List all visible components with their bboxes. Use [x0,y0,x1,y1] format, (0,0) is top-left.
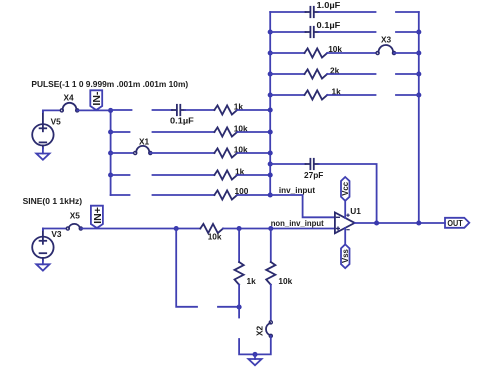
wire non_inv_input row [176,228,200,230]
wire to opamp plus [223,228,335,230]
row f3 wire after X3 [394,52,419,54]
svg-text:IN-: IN- [91,91,103,106]
svg-text:10k: 10k [208,231,222,241]
node dot [237,226,242,231]
row f2 wire left [270,31,305,33]
node dot [108,129,113,134]
row f4 wire after gap [396,73,419,75]
wire X2 to ground row [255,336,271,355]
feedback right bus [418,12,420,223]
voltage source V5 [32,110,53,148]
wire X4 to IN- node [77,109,110,111]
row m2 wire stub [111,131,130,133]
resistor 2k [305,69,328,78]
svg-text:V5: V5 [51,117,62,127]
node dot [268,29,273,34]
wire V3 to X5 [43,229,68,231]
svg-text:1k: 1k [247,276,257,286]
svg-text:U1: U1 [350,206,361,216]
row f2 wire right [319,31,376,33]
resistor 10k (row m2) [214,127,237,136]
wire X5 to junction [81,228,176,230]
wire m1 to bus [237,109,270,111]
row m2 wire [153,131,215,133]
row m4 wire [153,174,215,176]
flag OUT [445,218,469,228]
node dot [268,172,273,177]
row m3 wire [150,152,214,154]
node dot [416,220,421,225]
node dot [174,226,179,231]
wire cap to resistor m1 [185,109,214,111]
node dot [268,150,273,155]
node dot [108,150,113,155]
row f1 wire right [319,11,376,13]
row f5 wire after gap [396,94,419,96]
wire bus to 27pF [270,163,305,165]
node dot [268,71,273,76]
svg-text:0.1µF: 0.1µF [170,116,194,126]
wire inv_input [270,195,335,217]
row f1 wire after gap [396,11,419,13]
resistor 100 (row m5) [214,190,237,199]
node dot ground [252,352,257,357]
svg-text:1.0µF: 1.0µF [317,0,341,10]
voltage source V3 [32,229,53,261]
svg-text:10k: 10k [278,276,292,286]
row f4 wire right [327,73,375,75]
row m3 wire stub [111,152,136,154]
svg-text:OUT: OUT [447,218,462,228]
flag IN- [90,90,103,110]
capacitor 1.0uF [306,7,319,17]
resistor 10k (vertical) with leads [266,229,275,323]
flag Vcc [341,177,350,201]
resistor 1k (row m1) [214,105,237,114]
svg-text:X2: X2 [254,325,264,336]
wire 1k leg after gap [239,339,255,354]
resistor 10k (feedback) [305,48,328,57]
wire m4 to bus [237,174,270,176]
flag Vss [341,244,350,268]
row f5 wire left [270,94,304,96]
svg-text:inv_input: inv_input [279,185,315,195]
feedback left bus [269,12,271,195]
wire gap segment [218,306,239,308]
row f4 wire left [270,73,304,75]
jumper X5 [66,224,82,230]
capacitor 0.1uF (input) [172,105,185,115]
resistor 10k (row m3) [214,148,237,157]
node dot [268,107,273,112]
wire left branch down [176,229,197,307]
node dot [268,226,273,231]
svg-text:0.1µF: 0.1µF [317,20,341,30]
row m5 wire stub [111,194,130,196]
node dot [268,92,273,97]
wire m2 to bus [237,131,270,133]
svg-text:Vcc: Vcc [341,181,350,196]
svg-text:V3: V3 [51,229,62,239]
wire m5 to bus [237,194,270,196]
svg-text:X4: X4 [64,93,75,103]
node dot [268,161,273,166]
wire Vss stem [344,228,346,245]
node dot [268,50,273,55]
row m4 wire stub [111,174,130,176]
wire 1k leg lower [238,307,240,318]
row f3 wire to X3 [327,52,377,54]
node dot [108,172,113,177]
svg-text:SINE(0 1 1kHz): SINE(0 1 1kHz) [23,196,83,206]
svg-text:X3: X3 [381,35,392,45]
node dot [416,71,421,76]
resistor 1k (vertical) with leads [235,229,244,308]
node dot [374,220,379,225]
wire opamp output [355,222,445,224]
node dot [416,92,421,97]
svg-text:X1: X1 [139,136,150,146]
node dot [416,50,421,55]
ground (bottom) [248,354,261,365]
row f1 wire left [270,11,305,13]
ground under V3 [36,261,49,271]
svg-text:PULSE(-1 1 0 9.999m .001m .001: PULSE(-1 1 0 9.999m .001m .001m 10m) [31,79,188,89]
svg-text:27pF: 27pF [304,170,323,180]
wire V5 to X4 [43,110,62,112]
row f5 wire right [327,94,375,96]
wire Vcc stem [344,201,346,218]
node dot [268,129,273,134]
svg-text:non_inv_input: non_inv_input [271,218,324,228]
flag IN+ [91,206,104,228]
row m1: wire stub [111,109,132,111]
resistor 10k (series input) [200,224,223,233]
node dot [416,29,421,34]
resistor 1k (row m4) [214,170,237,179]
row f2 wire after gap [396,31,419,33]
jumper X3 [376,45,396,55]
svg-text:IN+: IN+ [92,207,104,224]
ground under V5 [36,148,49,160]
svg-text:X5: X5 [70,211,81,221]
capacitor 0.1uF (feedback) [306,27,319,37]
node dot [268,192,273,197]
row m1 wire to cap [153,109,173,111]
capacitor 27pF [306,159,319,169]
jumper X1 [134,146,152,155]
wire 27pF to output [319,164,377,223]
op-amp U1 [335,213,355,234]
wire m3 to bus [237,152,270,154]
row m5 wire [153,194,215,196]
left bus of IN- ladder [110,110,112,195]
node dot IN- [108,108,113,113]
row f3 wire left [270,52,304,54]
svg-text:Vss: Vss [341,248,350,263]
resistor 1k (feedback) [305,90,328,99]
jumper X2 [266,321,272,338]
jumper X4 [60,103,78,112]
node dot [237,304,242,309]
